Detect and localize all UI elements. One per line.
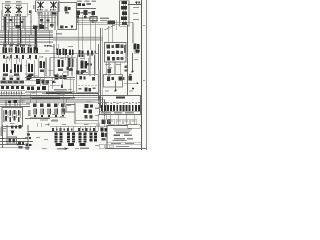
text smudge TS1 — [54, 89, 67, 96]
connector text CS1 below — [101, 112, 134, 113]
page background — [0, 0, 150, 150]
component tops row LT1 — [3, 78, 20, 81]
motor column bars C1 — [33, 109, 37, 117]
text row above S1 — [77, 1, 96, 2]
motor row labels — [33, 104, 65, 107]
cluster LM1 — [26, 134, 32, 149]
switch bank SW4 — [57, 49, 74, 56]
terminal block J2 — [108, 21, 116, 25]
thick wire TW1 — [32, 97, 60, 99]
junction dots harness row — [77, 17, 94, 23]
pump cluster PU1 — [84, 104, 94, 118]
console parts CX1a — [80, 76, 96, 80]
wire S2 harness — [76, 9, 133, 25]
small relay boxes row above title — [108, 119, 137, 124]
valve V13 — [90, 133, 97, 142]
timer box TM1 — [2, 3, 27, 16]
thermostat cluster T1 — [36, 79, 49, 84]
connector pin labels CS1 — [101, 102, 140, 104]
valve V10 stripes — [55, 136, 63, 141]
valve V11 — [67, 133, 75, 147]
heater cluster H1 — [58, 60, 64, 72]
title text row1 — [113, 129, 132, 134]
switch bank SW2 hanging — [3, 55, 37, 59]
console parts CX1b — [85, 88, 91, 92]
wire mid rows — [25, 78, 75, 93]
wire drops under timers — [4, 10, 58, 35]
timer motor TM1b hatch — [16, 14, 21, 16]
arrow mark A4 — [11, 131, 15, 136]
tick-dot row TD1 — [52, 128, 95, 131]
wire motor row rail — [30, 117, 66, 119]
wire SL1 drops — [25, 103, 75, 124]
junction ticks top-right — [136, 2, 141, 4]
wire interconnects switch rows — [7, 54, 22, 69]
dashed line CX1 — [78, 84, 97, 86]
label text V1 — [134, 51, 140, 54]
wire IG1 drop — [115, 81, 117, 91]
timer motor TM1b label — [16, 5, 22, 6]
pressure switch P1 — [27, 74, 33, 81]
timer motor TM1b — [16, 7, 22, 14]
dispenser box D1 — [58, 3, 77, 30]
border frame right outer line — [146, 0, 148, 150]
label text mid-top — [5, 5, 48, 28]
valve V11 stripes — [67, 136, 75, 141]
wire switch row rail — [0, 53, 98, 55]
console sub-box outline — [78, 55, 96, 75]
harness chain B — [9, 110, 11, 122]
switch bank SW1 row — [3, 47, 38, 53]
valve V13 stripes — [90, 136, 98, 139]
tick labels above switch row — [3, 45, 38, 47]
title text row3 — [111, 143, 134, 144]
timer motor TM2b — [51, 2, 57, 9]
harness labels HL1 — [8, 111, 22, 118]
dot node HL1b — [14, 101, 16, 103]
title block top box — [128, 125, 141, 128]
harness chain A — [5, 110, 7, 121]
wire top of HL1 — [0, 100, 30, 107]
long vertical pair VL — [99, 28, 103, 103]
component chain U1 ticks — [123, 4, 126, 22]
wire mesh under timers — [2, 10, 59, 30]
control box CB1 — [105, 43, 127, 63]
text SL1 — [51, 120, 58, 121]
arrow mark A3 — [65, 148, 69, 150]
junction dots under timers — [5, 18, 49, 25]
ignitor box IG1 — [104, 75, 123, 88]
connector strip box CS1 — [100, 96, 141, 115]
label text above TM1 — [5, 1, 22, 2]
valve cluster V1 — [134, 44, 140, 50]
control components CB1a — [107, 44, 126, 54]
wire TM1 leads — [6, 16, 23, 33]
winged symbol W1 — [44, 45, 52, 47]
valve V10 — [55, 133, 63, 147]
small part IG2 — [129, 74, 133, 81]
pump motor cluster PM1 — [101, 128, 108, 141]
small squares row CS2 — [102, 120, 111, 125]
connector pins CS1 — [101, 105, 140, 111]
component LC2 box — [7, 137, 17, 144]
component chain U1 — [121, 1, 127, 25]
title text EC line — [114, 135, 133, 137]
text bottom center — [57, 148, 89, 150]
wire corner right of motors — [66, 105, 75, 113]
border frame bottom line — [105, 147, 147, 149]
wire bus band grey — [53, 37, 103, 41]
component LC1 — [11, 125, 22, 129]
valve V12 — [79, 133, 87, 146]
wire top-right feeder — [128, 2, 142, 5]
switch cluster S2 row — [77, 10, 96, 15]
terminal box J1 — [90, 17, 97, 22]
label text DC1 — [43, 84, 49, 85]
arrow mark A2 — [52, 81, 57, 84]
wire diagonal feed — [104, 25, 116, 31]
nested corner lines big-box bottom — [10, 94, 106, 121]
valve V12 stripes — [79, 136, 87, 141]
dot node HL1a — [5, 102, 7, 104]
label PU1 — [95, 108, 100, 109]
motor cluster M4 — [40, 61, 46, 72]
connector strip label — [116, 97, 125, 99]
wire drops B1 — [6, 28, 37, 50]
switch bank SW5 — [79, 50, 84, 57]
pin row PN1 — [1, 86, 24, 89]
small boxes bottom-centre — [99, 144, 111, 148]
scattered text smudges TX1 — [3, 25, 145, 149]
heater cluster H1b — [69, 58, 74, 71]
dark cluster DC1 — [27, 86, 46, 90]
dispenser bottom marks D1 — [60, 26, 68, 29]
tick row TK1 — [2, 92, 22, 95]
motor column bars C3 — [47, 109, 51, 117]
timer motor TM2a — [38, 2, 44, 9]
motor row footnote text — [40, 119, 58, 120]
junction block B1b — [33, 25, 44, 29]
thick wire TW2 — [46, 92, 72, 94]
small marks right console — [87, 63, 93, 66]
wire row y101 grey — [25, 100, 100, 103]
timer box TM2 — [36, 1, 60, 12]
wire bus left B1 — [0, 30, 100, 44]
connector band CN1 — [1, 81, 25, 84]
motor column bars C4 — [54, 109, 58, 117]
title divider 4 — [107, 144, 142, 146]
label text U1 — [133, 7, 139, 20]
single contacts right of SW5 — [87, 50, 93, 55]
extra wires mesh W9 — [9, 15, 134, 133]
valve bank top rail — [28, 126, 110, 131]
junction dots bottom-left — [2, 138, 19, 146]
harness box HL1 — [2, 108, 23, 127]
ignitor parts IG1 — [107, 77, 114, 82]
harness chain D — [18, 110, 20, 122]
scattered small marks SM1 — [61, 67, 83, 88]
component LC3 — [18, 142, 24, 149]
wire right column — [128, 22, 137, 95]
small marks between switch rows — [7, 57, 13, 73]
wire TM2 leads — [39, 12, 55, 30]
arrow mark A1 — [28, 75, 32, 79]
console box CX1 — [77, 75, 100, 93]
mark top V2 — [136, 50, 140, 52]
junction block B1a — [16, 25, 21, 28]
switch cluster S1 — [78, 3, 92, 6]
wire drops PR1 — [109, 62, 115, 75]
label text below TM2 — [37, 10, 56, 15]
title block outline — [107, 126, 142, 149]
small text LL1 — [1, 127, 30, 148]
title text row2 — [113, 138, 134, 141]
small marks under timers — [10, 11, 57, 27]
component chain U1 outline — [120, 1, 130, 27]
dot node IG3 — [132, 88, 134, 90]
dispenser symbol D1 — [65, 7, 71, 14]
motor column bars C2 — [40, 109, 44, 117]
small text left LC0 — [3, 128, 6, 132]
timer motor TM2b hatch — [51, 9, 56, 11]
wire band lower-left — [0, 94, 98, 102]
title divider 3 — [107, 141, 142, 143]
timer motor TM1a label — [5, 5, 10, 6]
wire PU1 mid — [75, 120, 98, 122]
small mark HX1 — [8, 100, 17, 103]
wire row PN1 rails — [0, 85, 25, 90]
motor column bars C5 — [61, 109, 65, 117]
label text L1 — [100, 18, 109, 22]
motor cluster M2 — [14, 64, 22, 76]
timer motor TM2a hatch — [38, 9, 43, 11]
small relay R5 — [125, 50, 140, 72]
wire pins underline — [100, 111, 141, 113]
small marks harness row — [77, 16, 87, 19]
dot node IG1 — [115, 90, 117, 92]
connector band CN1 gaps — [7, 81, 20, 83]
timer motor TM1a hatch — [5, 14, 10, 16]
wire wavy extra — [0, 147, 28, 149]
small part IG3 — [119, 77, 125, 81]
timer motor TM1a — [5, 7, 11, 14]
motor cluster M1 — [3, 64, 8, 76]
heavy vertical feeders through bus — [5, 17, 36, 50]
border frame right inner line — [141, 0, 143, 150]
wire rail mid y57.7 — [50, 57, 76, 59]
arrow mark D1 — [71, 26, 74, 29]
wire IG2 — [124, 82, 138, 84]
heater cluster H2 — [81, 61, 88, 73]
tick row SW5b — [95, 50, 97, 53]
motor cluster M3 — [28, 64, 33, 76]
small relay boxes text — [109, 121, 136, 122]
wire PU1 bottom — [75, 123, 100, 125]
small mark PR2 — [108, 69, 112, 76]
dot node IG2 — [137, 82, 139, 84]
wire verticals mid — [46, 44, 95, 76]
harness chain C — [14, 110, 16, 121]
small parts row PR1 — [107, 57, 124, 61]
console marks CX1c — [79, 88, 96, 90]
dot node V1 — [132, 71, 134, 73]
small text row left-top — [3, 76, 21, 77]
title text row4 — [109, 146, 129, 148]
thermostat cluster T2 — [55, 75, 67, 80]
component LC2 marks — [9, 139, 16, 143]
lower-left wires LW1 — [0, 125, 33, 150]
harness text column HL1 — [3, 110, 4, 122]
